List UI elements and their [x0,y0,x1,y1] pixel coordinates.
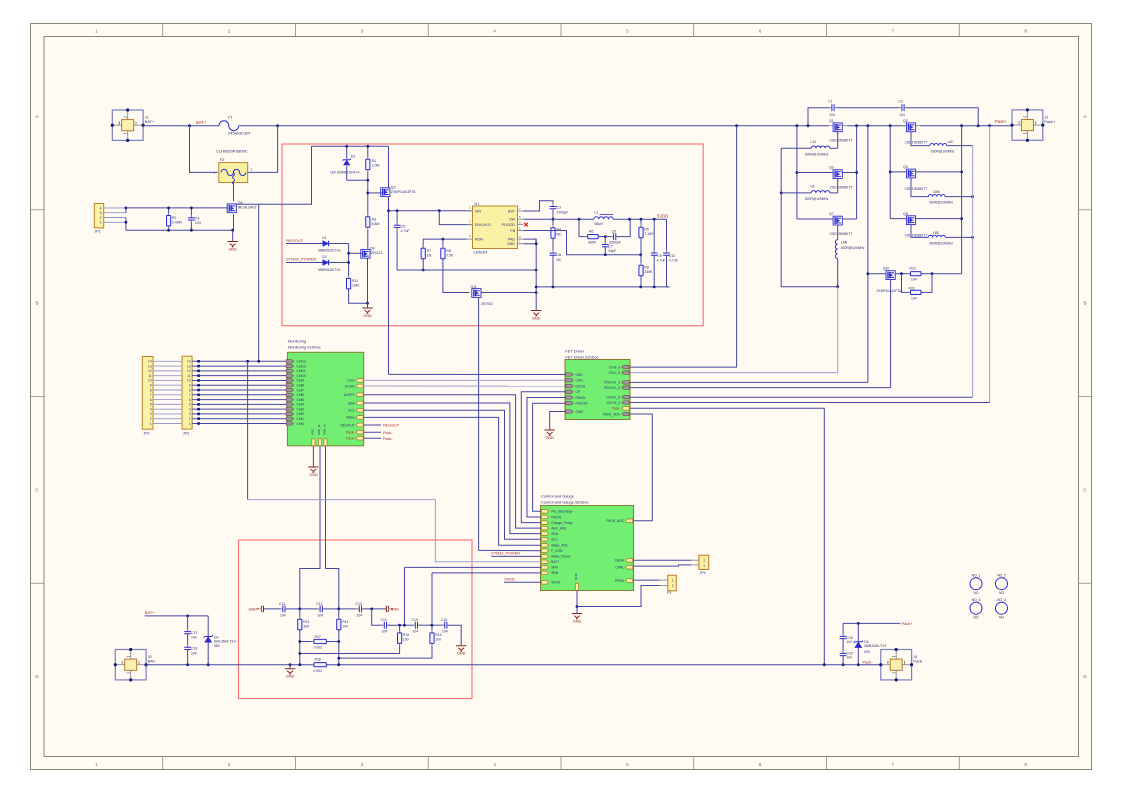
svg-text:3: 3 [150,412,152,416]
pin CANL of Control and Gauge [625,565,632,569]
svg-text:Cell6: Cell6 [297,393,305,397]
svg-text:600R@100MHz: 600R@100MHz [805,152,829,156]
ground GND under Monitoring [308,467,318,472]
svg-text:Q10: Q10 [883,266,890,270]
pin SCL of Control and Gauge [541,538,548,542]
svg-text:Cell3: Cell3 [297,407,305,411]
svg-text:100: 100 [303,624,309,628]
svg-text:FET Driver: FET Driver [565,349,584,354]
svg-text:STM32_POWER: STM32_POWER [491,552,520,556]
pin Cell0 of Monitoring [286,422,293,425]
svg-text:Wake: Wake [346,416,354,420]
pin DCHG_G of FET Driver [622,396,629,399]
svg-text:GND: GND [249,608,258,612]
svg-text:U1: U1 [475,202,480,206]
pin Cell10 of Monitoring [286,374,293,377]
svg-text:R18: R18 [315,657,321,661]
svg-text:Cell12: Cell12 [297,364,307,368]
svg-text:Pack-: Pack- [383,437,393,441]
svg-text:13: 13 [148,364,152,368]
wire CANL to JP4 [634,565,692,566]
svg-text:DCHG: DCHG [345,384,355,388]
TVS diode D0 SMLJ58A-T3-F 58V [207,616,209,636]
resistor R5 7.15K feedback top [640,219,642,227]
svg-text:SCL: SCL [551,538,558,542]
svg-text:68uH: 68uH [595,222,604,226]
wire VDD feed to FET driver [389,373,566,375]
ferrite bead L8 gate Q3 [837,179,839,193]
ground GND tap on return rail [289,665,291,669]
svg-text:13: 13 [187,364,191,368]
wire battery return rail right [326,664,881,666]
svg-text:GND: GND [286,675,295,679]
wire F1 to BAT+ rail junction [239,125,278,127]
svg-text:CSD19536KTT: CSD19536KTT [830,185,853,189]
svg-text:600R@100MHz: 600R@100MHz [931,150,955,154]
svg-text:Q3: Q3 [829,166,834,170]
svg-text:12: 12 [187,369,191,373]
wire ALERT to Alert_AFE [364,395,542,528]
svg-text:1: 1 [214,171,216,175]
capacitor C19b 104 [187,634,189,647]
svg-text:C5: C5 [401,224,406,228]
capacitor C10 4.7uF [666,219,668,253]
svg-text:Pack-: Pack- [863,659,874,664]
svg-text:104: 104 [829,113,835,117]
group box current sense [239,540,473,699]
svg-text:Cell11: Cell11 [297,369,306,373]
wire SW rail to L1 [524,218,594,220]
svg-text:BAT-: BAT- [148,659,157,664]
wire Q3 drain to VIN rail and FET driver VDD [388,197,390,375]
svg-text:R1: R1 [372,159,377,163]
capacitor C4 104 [190,208,192,230]
pin Cell3 of Monitoring [286,407,293,410]
svg-text:Cell8: Cell8 [297,384,305,388]
svg-text:GND: GND [532,316,541,320]
svg-text:4.7uF: 4.7uF [657,259,666,263]
capacitor C2 104 snubber [837,107,900,109]
svg-text:Q11: Q11 [471,285,477,289]
ground GND under Control and Gauge [572,614,582,619]
svg-text:VDD: VDD [576,373,584,377]
svg-text:5VDD: 5VDD [551,581,560,585]
wire EN/UVLO drop [439,211,472,225]
svg-text:6.8M: 6.8M [372,222,380,226]
transistor Q8 CSD19536KTT parallel [890,218,906,220]
pin Cell1 of Monitoring [286,417,293,420]
svg-text:VIN: VIN [475,209,481,213]
svg-text:D1: D1 [322,236,326,240]
resistor R22 104 [902,274,911,293]
ground GND below Q6 [232,230,234,241]
connector J1 BAT+ [112,110,143,140]
svg-text:L8: L8 [811,184,815,188]
svg-text:Pack-: Pack- [612,407,620,411]
svg-text:4: 4 [189,407,191,411]
svg-text:BAT+: BAT+ [196,120,207,125]
pin Charge_Pump of Control and Gauge [541,521,548,525]
svg-text:Cell7: Cell7 [297,388,305,392]
wire Q9 source down to ground rail [367,258,369,303]
svg-text:SRN_M: SRN_M [323,424,327,435]
svg-text:Control and Gauge.SchDoc: Control and Gauge.SchDoc [541,499,589,504]
transistor Q6 IRLML6402 [227,204,236,213]
pin GND of Monitoring bottom [312,439,315,446]
svg-text:Q4: Q4 [903,165,908,169]
svg-text:14: 14 [187,360,191,364]
wire CHG Monitoring to FET driver [364,379,565,381]
resistor R11 10M [348,276,350,292]
svg-text:7.5K: 7.5K [446,253,454,257]
wire Monitoring GND pin to ground [312,446,314,467]
wire FB network [524,231,641,255]
svg-text:CHG: CHG [347,379,355,383]
ferrite bead L8E gate Q8 [911,225,928,238]
wire 5VDD pin [504,581,541,583]
wire DCHG Monitoring to FET driver [364,385,565,387]
pin Cell8 of Monitoring [286,384,293,387]
capacitor C8 NC [552,238,554,253]
svg-text:NO_3: NO_3 [972,598,981,602]
svg-text:C9: C9 [657,254,662,258]
svg-text:MBR0530LT1G: MBR0530LT1G [318,268,341,272]
svg-text:PRES: PRES [615,579,625,583]
wire mid bus right trio [889,126,891,219]
svg-text:CANH: CANH [615,559,625,563]
svg-text:R5: R5 [644,228,649,232]
svg-text:2200pF: 2200pF [557,210,569,214]
junction on BAT+ at F2 branch [188,124,191,127]
pin SRP of Control and Gauge [541,566,548,570]
pin DCHG_S of FET Driver [622,401,629,404]
svg-text:GND: GND [576,410,584,414]
svg-text:14: 14 [148,360,152,364]
capacitor C11 104 [264,608,282,610]
no-connect X on PGOOD [524,223,528,227]
inductor L1 68uH [594,217,613,219]
svg-text:CSD19536KTT: CSD19536KTT [905,233,928,237]
connector J0 BAT- [115,650,146,680]
svg-text:0.002: 0.002 [314,669,323,673]
svg-text:Q2: Q2 [903,119,908,123]
transistor Q3b CSD19536KTT parallel [797,172,833,174]
svg-text:DCHG_G: DCHG_G [606,396,621,400]
wire pack rail right section to J2 [921,125,1013,127]
svg-text:C19: C19 [191,647,197,651]
pin SDA of Control and Gauge [541,532,548,536]
svg-text:C3: C3 [557,206,562,210]
svg-text:1.0M: 1.0M [372,164,380,168]
wire Q6 source to ground rail [233,215,235,231]
svg-text:365K: 365K [588,241,597,245]
svg-text:Cell2: Cell2 [297,412,305,416]
pin Cell4 of Monitoring [286,403,293,406]
svg-text:A: A [1083,114,1086,119]
svg-text:5: 5 [150,403,152,407]
pin Pre_discharge of Control and Gauge [541,510,548,514]
svg-text:Pack+: Pack+ [1044,119,1056,124]
svg-text:JP1: JP1 [95,230,101,234]
pin Alert_AFE of Control and Gauge [541,526,548,530]
svg-text:Pack-: Pack- [383,431,393,435]
svg-text:Cell9: Cell9 [297,379,305,383]
svg-text:8: 8 [189,388,191,392]
pin GND of Control and Gauge bottom [575,583,578,590]
svg-text:D3: D3 [351,155,356,159]
svg-text:Alert_AFE: Alert_AFE [551,526,567,530]
transistor Q2 CSD19536KTT [902,125,921,127]
pin PDCHG_S of FET Driver [622,381,629,384]
svg-text:SRP_M: SRP_M [317,424,321,435]
wire PDCHG to Pre_discharge [533,403,565,511]
svg-text:DCHG: DCHG [576,384,586,388]
svg-text:2: 2 [189,417,191,421]
svg-text:7: 7 [150,393,152,397]
svg-text:249K: 249K [644,270,653,274]
svg-text:C6: C6 [612,229,617,233]
svg-text:1M: 1M [427,253,432,257]
capacitor C6 3300pF [605,236,612,238]
wire Q11 drain to ground net [481,292,536,294]
svg-text:0.002: 0.002 [314,646,323,650]
svg-text:104: 104 [317,613,323,617]
svg-text:L10: L10 [811,140,817,144]
svg-text:9: 9 [150,384,152,388]
svg-text:C10: C10 [669,254,675,258]
ground GND main regulator [531,311,541,316]
wire Pack- from FET driver down to pack return [630,408,824,664]
svg-text:10: 10 [187,379,191,383]
svg-text:6: 6 [189,398,191,402]
svg-text:R16: R16 [435,633,441,637]
pin Wake of Monitoring [356,416,363,420]
svg-text:600R@100MHz: 600R@100MHz [930,201,954,205]
wire SRP to Control and Gauge [405,566,542,568]
wire Pack+ stub bottom right [843,622,900,624]
svg-text:B: B [1083,301,1086,306]
pin REGOUT of Monitoring [356,423,363,427]
pin Pack- of Monitoring [356,436,363,440]
svg-text:JP2: JP2 [143,432,149,436]
svg-text:C12: C12 [316,602,322,606]
svg-text:3: 3 [100,211,102,215]
pin CANH of Control and Gauge [625,559,632,563]
connector J4 Pack- [881,650,912,680]
pin CHG_S of FET Driver [622,365,629,368]
pin PRES of Control and Gauge [625,579,632,583]
capacitor C17 104 [187,616,189,632]
pin PACK_ADC of FET Driver [622,412,629,415]
svg-text:Pack-: Pack- [346,431,354,435]
wire SRN to Control and Gauge [432,572,541,574]
wire Q11 source down to F_CON [478,297,480,550]
capacitor C15 104 [842,623,844,636]
resistor R1 1.0M [367,146,369,180]
wire REGOUT stub at Monitoring [364,424,381,426]
pin GND of FET Driver [566,410,573,413]
svg-text:MBR0520LT1G: MBR0520LT1G [318,248,341,252]
svg-text:IRLML6402: IRLML6402 [238,206,257,210]
wire PMON link [527,398,565,518]
capacitor C9 4.7uF [653,219,655,253]
svg-text:60V: 60V [864,650,871,654]
svg-text:Q9: Q9 [370,246,375,250]
svg-text:100: 100 [403,637,409,641]
pin F_CON of Control and Gauge [541,549,548,553]
transistor Q11 2N7002 [472,289,481,298]
wire Pack- stub 1 at Monitoring [364,431,381,433]
svg-text:SRP: SRP [551,566,559,570]
pin Cell12 of Monitoring [286,364,293,367]
svg-text:4.7uF: 4.7uF [401,229,410,233]
wire DCHG_S sense to pack rail [989,126,991,403]
svg-text:PMON: PMON [551,515,562,519]
svg-text:8: 8 [150,388,152,392]
wire feed into regulator box [259,146,389,204]
svg-text:CHG: CHG [576,379,584,383]
svg-text:CANL: CANL [615,566,624,570]
svg-text:C17: C17 [191,631,197,635]
wire F2 output down to Q6 [233,183,235,202]
svg-text:4: 4 [150,407,152,411]
resistor R13 100 [299,609,301,619]
wire BST to C3 [524,201,554,211]
svg-text:2: 2 [100,216,102,220]
svg-text:2.49M: 2.49M [172,221,182,225]
svg-text:SRN: SRN [551,571,559,575]
svg-text:10: 10 [148,379,152,383]
svg-text:JP3: JP3 [183,432,189,436]
zener diode D3 16V SMM4Z16VH-F [346,146,348,159]
svg-text:DCHG_S: DCHG_S [607,401,622,405]
svg-text:CHG_S: CHG_S [609,365,621,369]
svg-text:ALERT: ALERT [344,393,355,397]
svg-text:CSD19536KTT: CSD19536KTT [905,187,928,191]
svg-text:Cell5: Cell5 [297,398,305,402]
capacitor C12 104 [300,608,319,610]
transistor Q4 CSD19536KTT parallel [890,171,906,173]
svg-text:SCL: SCL [348,409,355,413]
svg-text:GND: GND [545,436,554,440]
svg-text:1: 1 [672,578,674,582]
svg-text:Cell10: Cell10 [297,374,307,378]
svg-text:PDCHG: PDCHG [576,402,588,406]
svg-text:R11: R11 [352,279,358,283]
wire Pack- stub 2 at Monitoring [364,437,381,439]
svg-text:SMLJ58A-T3-F: SMLJ58A-T3-F [214,639,236,643]
svg-text:LM5164: LM5164 [474,251,488,255]
svg-text:NC: NC [557,232,563,236]
pin Cell11 of Monitoring [286,369,293,372]
svg-text:GND: GND [309,473,318,477]
pin VDD of FET Driver [566,373,573,376]
wire PRES to P1 [634,579,660,581]
svg-text:PACK_ADC: PACK_ADC [606,519,624,523]
wire bias node down to Q9 drain [367,180,369,249]
connector J2 Pack+ [1011,125,1013,127]
wire mid node bus left trio [856,126,858,219]
ground GND at Q9 [367,303,369,307]
svg-text:CP: CP [576,390,581,394]
svg-text:ZXMP10A13FTA: ZXMP10A13FTA [391,190,416,194]
svg-text:1: 1 [189,422,191,426]
ground rail right section [536,286,669,288]
wire PACK_ADC link [630,414,652,521]
svg-text:R4: R4 [557,228,562,232]
svg-text:PDCHG_S: PDCHG_S [604,381,621,385]
wire F_CON from Q11 [479,549,542,551]
svg-text:Charge_Pump: Charge_Pump [551,521,572,525]
svg-text:NO_4: NO_4 [997,598,1006,602]
resistor R9 249K feedback bottom [640,255,642,266]
pin Cell2 of Monitoring [286,412,293,415]
transistor Q10 ZXMP10A13FTA predischarge [867,126,869,383]
wire charge gate bus to FET driver CHG_G [837,287,839,373]
svg-text:BST: BST [508,209,516,213]
svg-text:R9: R9 [644,266,649,270]
group box power supply [282,144,703,326]
svg-text:104: 104 [847,640,853,644]
svg-text:1: 1 [150,422,152,426]
svg-text:ZXMP10A13FTA: ZXMP10A13FTA [877,289,902,293]
capacitor C14 104 [372,609,383,625]
power port GND right [386,606,393,612]
wire DCHG_S from FET driver [630,402,990,404]
wire 5VDD output rail [613,218,666,220]
svg-text:NO_2: NO_2 [997,574,1006,578]
svg-text:GND: GND [457,652,466,656]
svg-text:Q3: Q3 [391,186,396,190]
capacitor C20 104 [842,639,844,653]
svg-text:L8C: L8C [948,140,955,144]
svg-text:PAD: PAD [508,238,516,242]
wire CHG_S to BAT+ rail [630,126,737,367]
connector JP3 [182,356,192,429]
svg-text:3: 3 [251,168,253,172]
pin CHG of FET Driver [566,379,573,382]
pin Cell13 of Monitoring [286,360,293,363]
wire charge gate bus [781,148,838,286]
resistor R18 0.002 shunt main [311,664,329,666]
svg-text:GND: GND [573,619,582,623]
capacitor C1 104 snubber [808,108,830,126]
ferrite bead L8M gate Q4 [911,178,928,197]
svg-text:Pack-: Pack- [346,437,354,441]
svg-text:5: 5 [189,403,191,407]
pin SRN_M of Monitoring bottom [324,439,327,446]
wire Wake to Wake_AFE [364,417,542,545]
pin ALERT of Monitoring [356,393,363,397]
wire BAT+ sense to Control and Gauge [247,361,249,499]
svg-text:Control and Gauge: Control and Gauge [541,494,574,499]
svg-text:104: 104 [911,296,917,300]
wire C3 to SW node [552,210,554,219]
pin Cell9 of Monitoring [286,379,293,382]
resistor R10 104 [895,273,911,275]
svg-text:F1: F1 [228,115,233,120]
wire branch down to F2 pin 1 [190,126,218,173]
transistor Q7 CSD19536KTT parallel [797,218,833,220]
transistor Q1 CSD19536KTT [829,125,848,127]
svg-text:7: 7 [189,393,191,397]
svg-text:104: 104 [280,613,286,617]
svg-text:B: B [35,301,38,306]
ferrite bead L8C gate Q2 [911,132,930,146]
svg-text:STM32_POWER: STM32_POWER [286,256,316,261]
svg-text:600R@100MHz: 600R@100MHz [841,246,865,250]
wire PDCHG_G from FET driver [630,387,891,389]
